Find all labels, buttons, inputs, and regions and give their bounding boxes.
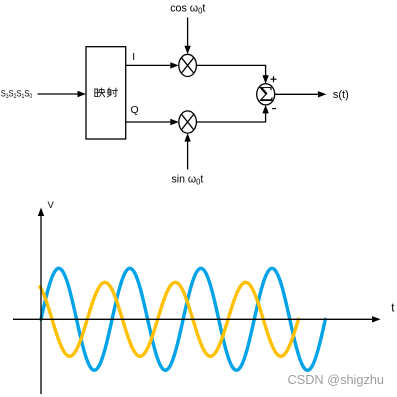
svg-text:CSDN @shigzhu: CSDN @shigzhu — [288, 372, 385, 387]
svg-text:s(t): s(t) — [333, 89, 349, 101]
svg-text:Q: Q — [131, 104, 139, 116]
svg-text:S3S2S1S0: S3S2S1S0 — [1, 89, 33, 101]
svg-text:Σ: Σ — [259, 83, 274, 106]
svg-text:I: I — [132, 51, 135, 63]
svg-text:V: V — [48, 200, 55, 211]
